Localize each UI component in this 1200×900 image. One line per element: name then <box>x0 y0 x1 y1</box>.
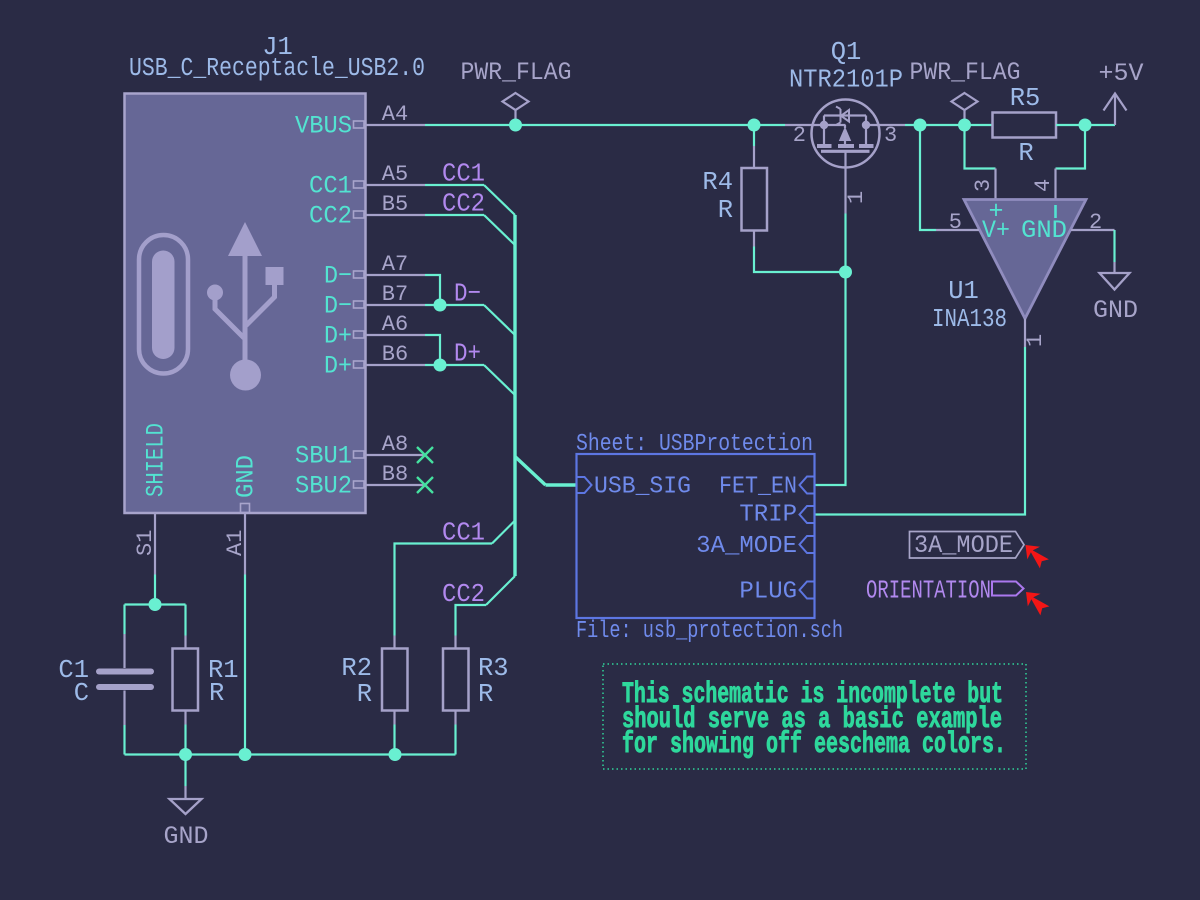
svg-text:ORIENTATION: ORIENTATION <box>866 576 991 606</box>
svg-text:R2: R2 <box>341 654 372 683</box>
op-amp U1 INA138 <box>932 169 1115 348</box>
Q1 body link <box>824 124 846 126</box>
wire to GND symbol <box>184 755 186 787</box>
Q1 substrate bar <box>821 150 870 153</box>
ERC marker arrow 1 <box>1026 545 1049 568</box>
wire CC2 to R3 <box>456 605 487 636</box>
hierarchical sheet USBProtection <box>576 431 843 645</box>
pin SBU2 B8 <box>365 484 425 486</box>
Q1 channel bars <box>817 144 874 148</box>
wire CC1 to R2 <box>395 544 493 636</box>
bus entry CC2 <box>484 215 515 245</box>
ERC marker arrow 2 <box>1026 592 1049 615</box>
svg-text:A8: A8 <box>382 432 408 457</box>
pin VBUS A4 <box>365 124 425 126</box>
svg-text:5: 5 <box>949 210 962 235</box>
svg-text:D−: D− <box>324 292 352 321</box>
Q1 source dot <box>820 121 828 129</box>
svg-text:3A_MODE: 3A_MODE <box>914 531 1013 560</box>
pin D- A7 <box>365 274 425 276</box>
svg-text:Q1: Q1 <box>831 38 862 67</box>
bus entry USB_SIG <box>515 457 546 486</box>
power flag PWR_FLAG 2 <box>910 58 1021 125</box>
wire R3 bottom <box>454 725 456 755</box>
USB icon oval outline <box>139 235 188 374</box>
svg-text:D+: D+ <box>324 352 352 381</box>
USB icon trident stem <box>243 248 248 375</box>
USB icon right branch <box>246 284 275 326</box>
U1 pin name - <box>1054 205 1057 218</box>
bus vertical <box>513 215 516 576</box>
capacitor C1 <box>58 634 151 725</box>
svg-text:C: C <box>74 679 89 708</box>
wire pin2 to GND <box>1113 230 1115 262</box>
wire Q1 gate down to FET_EN <box>815 214 846 486</box>
Q1 pin 1 gate stub <box>844 151 846 213</box>
svg-text:A7: A7 <box>382 252 408 277</box>
svg-text:R3: R3 <box>478 654 509 683</box>
svg-text:R: R <box>209 679 224 708</box>
USB icon left dot <box>207 285 223 301</box>
svg-text:GND: GND <box>1021 216 1067 245</box>
svg-text:Sheet: USBProtection: Sheet: USBProtection <box>576 431 813 458</box>
pin CC2 B5 <box>365 214 425 216</box>
wire CC2 <box>425 214 484 216</box>
svg-text:B7: B7 <box>382 282 408 307</box>
ground symbol right <box>1093 262 1138 325</box>
wire pin5 branch <box>920 125 936 230</box>
U1 triangle body <box>964 200 1086 319</box>
wire D+ B6 <box>425 364 484 366</box>
wire C1 bottom <box>123 725 125 755</box>
pin D- B7 <box>365 304 425 306</box>
junction D+ <box>434 359 447 372</box>
wire CC1 <box>425 184 484 186</box>
svg-text:4: 4 <box>1031 179 1056 192</box>
sheet pin TRIP <box>800 506 815 523</box>
wire GND A1 down <box>244 575 246 755</box>
svg-text:D+: D+ <box>324 322 352 351</box>
bus entry CC1 <box>484 185 515 215</box>
svg-text:TRIP: TRIP <box>739 502 797 529</box>
resistor R3 <box>443 636 509 725</box>
Q1 top rail <box>824 114 866 116</box>
Q1 right leg <box>865 116 867 145</box>
wire pin3 branch <box>965 125 996 169</box>
U1 pin2 stub <box>1071 229 1115 231</box>
svg-text:3: 3 <box>884 123 897 148</box>
bus entry CC2 out <box>486 576 515 605</box>
svg-text:USB_C_Receptacle_USB2.0: USB_C_Receptacle_USB2.0 <box>129 54 425 83</box>
USB icon oval inner <box>152 251 175 360</box>
junction R1 bottom <box>179 748 192 761</box>
resistor R2 <box>341 636 407 725</box>
USB icon left branch <box>215 299 244 338</box>
pin SBU1 A8 <box>365 454 425 456</box>
svg-text:R: R <box>718 196 733 225</box>
wire to R1 <box>184 605 186 636</box>
wire R2 bottom <box>393 725 395 755</box>
ground symbol left <box>163 786 208 851</box>
svg-text:PWR_FLAG: PWR_FLAG <box>461 58 572 87</box>
wire R5 to +5V <box>1056 124 1115 126</box>
junction PWR_FLAG2 <box>958 119 971 132</box>
sheet pin 3A_MODE <box>800 536 815 553</box>
svg-text:SBU1: SBU1 <box>295 442 352 471</box>
svg-text:D+: D+ <box>454 339 481 369</box>
sheet pin FET_EN <box>800 477 815 494</box>
svg-text:A6: A6 <box>382 312 408 337</box>
USB icon arrow head <box>228 222 262 256</box>
svg-text:2: 2 <box>793 123 806 148</box>
resistor R5 <box>993 84 1057 168</box>
junction gate R4 <box>839 266 852 279</box>
U1 pin3 stub <box>994 169 996 200</box>
svg-text:V+: V+ <box>982 216 1010 245</box>
svg-text:A4: A4 <box>382 102 408 127</box>
hierarchical label ORIENTATION <box>866 576 1024 606</box>
sheet pin USB_SIG <box>577 477 592 493</box>
USB icon right square <box>266 267 284 285</box>
svg-text:1: 1 <box>844 191 869 204</box>
bus entry D+ <box>484 365 515 395</box>
bus entry D- <box>484 305 515 335</box>
svg-text:GND: GND <box>1093 296 1138 325</box>
svg-text:A5: A5 <box>382 162 408 187</box>
junction A1 bottom <box>239 748 252 761</box>
junction VBUS R4 <box>748 119 761 132</box>
wire to C1 <box>123 605 125 635</box>
svg-text:PWR_FLAG: PWR_FLAG <box>910 58 1021 87</box>
connector J1 USB_C_Receptacle_USB2.0 <box>125 33 434 575</box>
svg-text:SBU2: SBU2 <box>295 472 352 501</box>
sheet outline <box>577 454 815 618</box>
svg-text:PLUG: PLUG <box>739 579 797 606</box>
svg-text:R: R <box>357 680 372 709</box>
svg-text:R5: R5 <box>1010 84 1041 113</box>
wire R1 bottom <box>184 725 186 755</box>
junction R2 bottom <box>389 748 402 761</box>
junction VBUS PWR_FLAG <box>509 119 522 132</box>
resistor R4 <box>702 146 767 247</box>
svg-text:VBUS: VBUS <box>295 112 352 141</box>
svg-text:FET_EN: FET_EN <box>719 474 797 501</box>
no-connect X on A8 <box>417 447 433 463</box>
svg-text:CC2: CC2 <box>309 202 352 231</box>
resistor R1 <box>173 636 239 725</box>
junction Q1 drain <box>914 119 927 132</box>
svg-text:R4: R4 <box>702 168 733 197</box>
pin D+ A6 <box>365 334 425 336</box>
svg-text:CC1: CC1 <box>442 159 485 189</box>
svg-text:A1: A1 <box>223 530 248 556</box>
junction R5 right <box>1079 119 1092 132</box>
svg-text:File: usb_protection.sch: File: usb_protection.sch <box>576 618 843 645</box>
sheet pin PLUG <box>800 582 815 599</box>
svg-text:USB_SIG: USB_SIG <box>594 474 691 501</box>
wire junction horizontal <box>125 603 186 605</box>
USB icon bottom circle <box>230 360 261 391</box>
wire D- B7 <box>425 304 484 306</box>
transistor Q1 NTR2101P <box>785 38 905 214</box>
svg-text:R: R <box>478 680 493 709</box>
pin SHIELD S1 <box>154 513 156 575</box>
Q1 body diode <box>844 125 846 128</box>
wire VBUS junction to R4 <box>753 125 755 146</box>
wire D+ A6 <box>425 335 440 365</box>
bus entry CC1 out <box>492 521 515 544</box>
svg-text:D−: D− <box>324 262 352 291</box>
svg-text:1: 1 <box>1023 334 1048 347</box>
svg-text:CC2: CC2 <box>442 189 485 219</box>
wire R4 bottom to gate <box>754 247 846 273</box>
svg-text:B6: B6 <box>382 342 408 367</box>
svg-text:+5V: +5V <box>1098 59 1143 88</box>
svg-text:2: 2 <box>1089 210 1102 235</box>
power symbol +5V <box>1098 59 1143 125</box>
text note box <box>603 664 1026 769</box>
U1 pin5 stub <box>936 229 979 231</box>
wire USB_SIG to sheet <box>546 483 577 486</box>
svg-text:U1: U1 <box>948 277 979 306</box>
Q1 drain dot <box>862 121 870 129</box>
Q1 body circle <box>812 100 880 168</box>
svg-text:B8: B8 <box>382 462 408 487</box>
junction S1 <box>149 598 162 611</box>
wire D- A7 <box>425 275 440 305</box>
svg-text:3A_MODE: 3A_MODE <box>696 533 797 560</box>
svg-text:SHIELD: SHIELD <box>142 423 171 497</box>
svg-text:B5: B5 <box>382 192 408 217</box>
svg-text:for showing off eeschema color: for showing off eeschema colors. <box>622 728 1006 762</box>
global label 3A_MODE <box>910 531 1025 560</box>
wire pin4 branch <box>1056 125 1086 169</box>
pin CC1 A5 <box>365 184 425 186</box>
svg-text:INA138: INA138 <box>932 305 1007 334</box>
svg-text:GND: GND <box>232 455 261 498</box>
wire S1 to junction <box>154 575 156 605</box>
wire Q1 drain to R5 <box>905 124 993 126</box>
Q1 schottky diode mark <box>836 107 841 126</box>
U1 pin4 stub <box>1054 169 1056 200</box>
wire VBUS A4 to Q1 <box>425 124 785 126</box>
Q1 pin 2 stub <box>785 124 824 126</box>
svg-text:D−: D− <box>454 279 481 309</box>
svg-text:3: 3 <box>971 179 996 192</box>
Q1 pin 3 stub <box>866 124 905 126</box>
svg-text:GND: GND <box>163 822 208 851</box>
junction D- <box>434 299 447 312</box>
Q1 left leg <box>823 116 825 145</box>
svg-text:CC1: CC1 <box>309 172 352 201</box>
svg-text:R: R <box>1018 139 1033 168</box>
no-connect X on B8 <box>417 477 433 493</box>
J1 body <box>125 94 366 514</box>
svg-text:S1: S1 <box>133 530 158 556</box>
wire bottom bus <box>125 753 456 755</box>
svg-text:NTR2101P: NTR2101P <box>789 66 903 95</box>
pin GND A1 <box>244 513 246 575</box>
power flag PWR_FLAG 1 <box>461 58 572 125</box>
pin D+ B6 <box>365 364 425 366</box>
wire U1 output to TRIP <box>815 347 1026 515</box>
U1 pin1 stub <box>1024 319 1026 348</box>
